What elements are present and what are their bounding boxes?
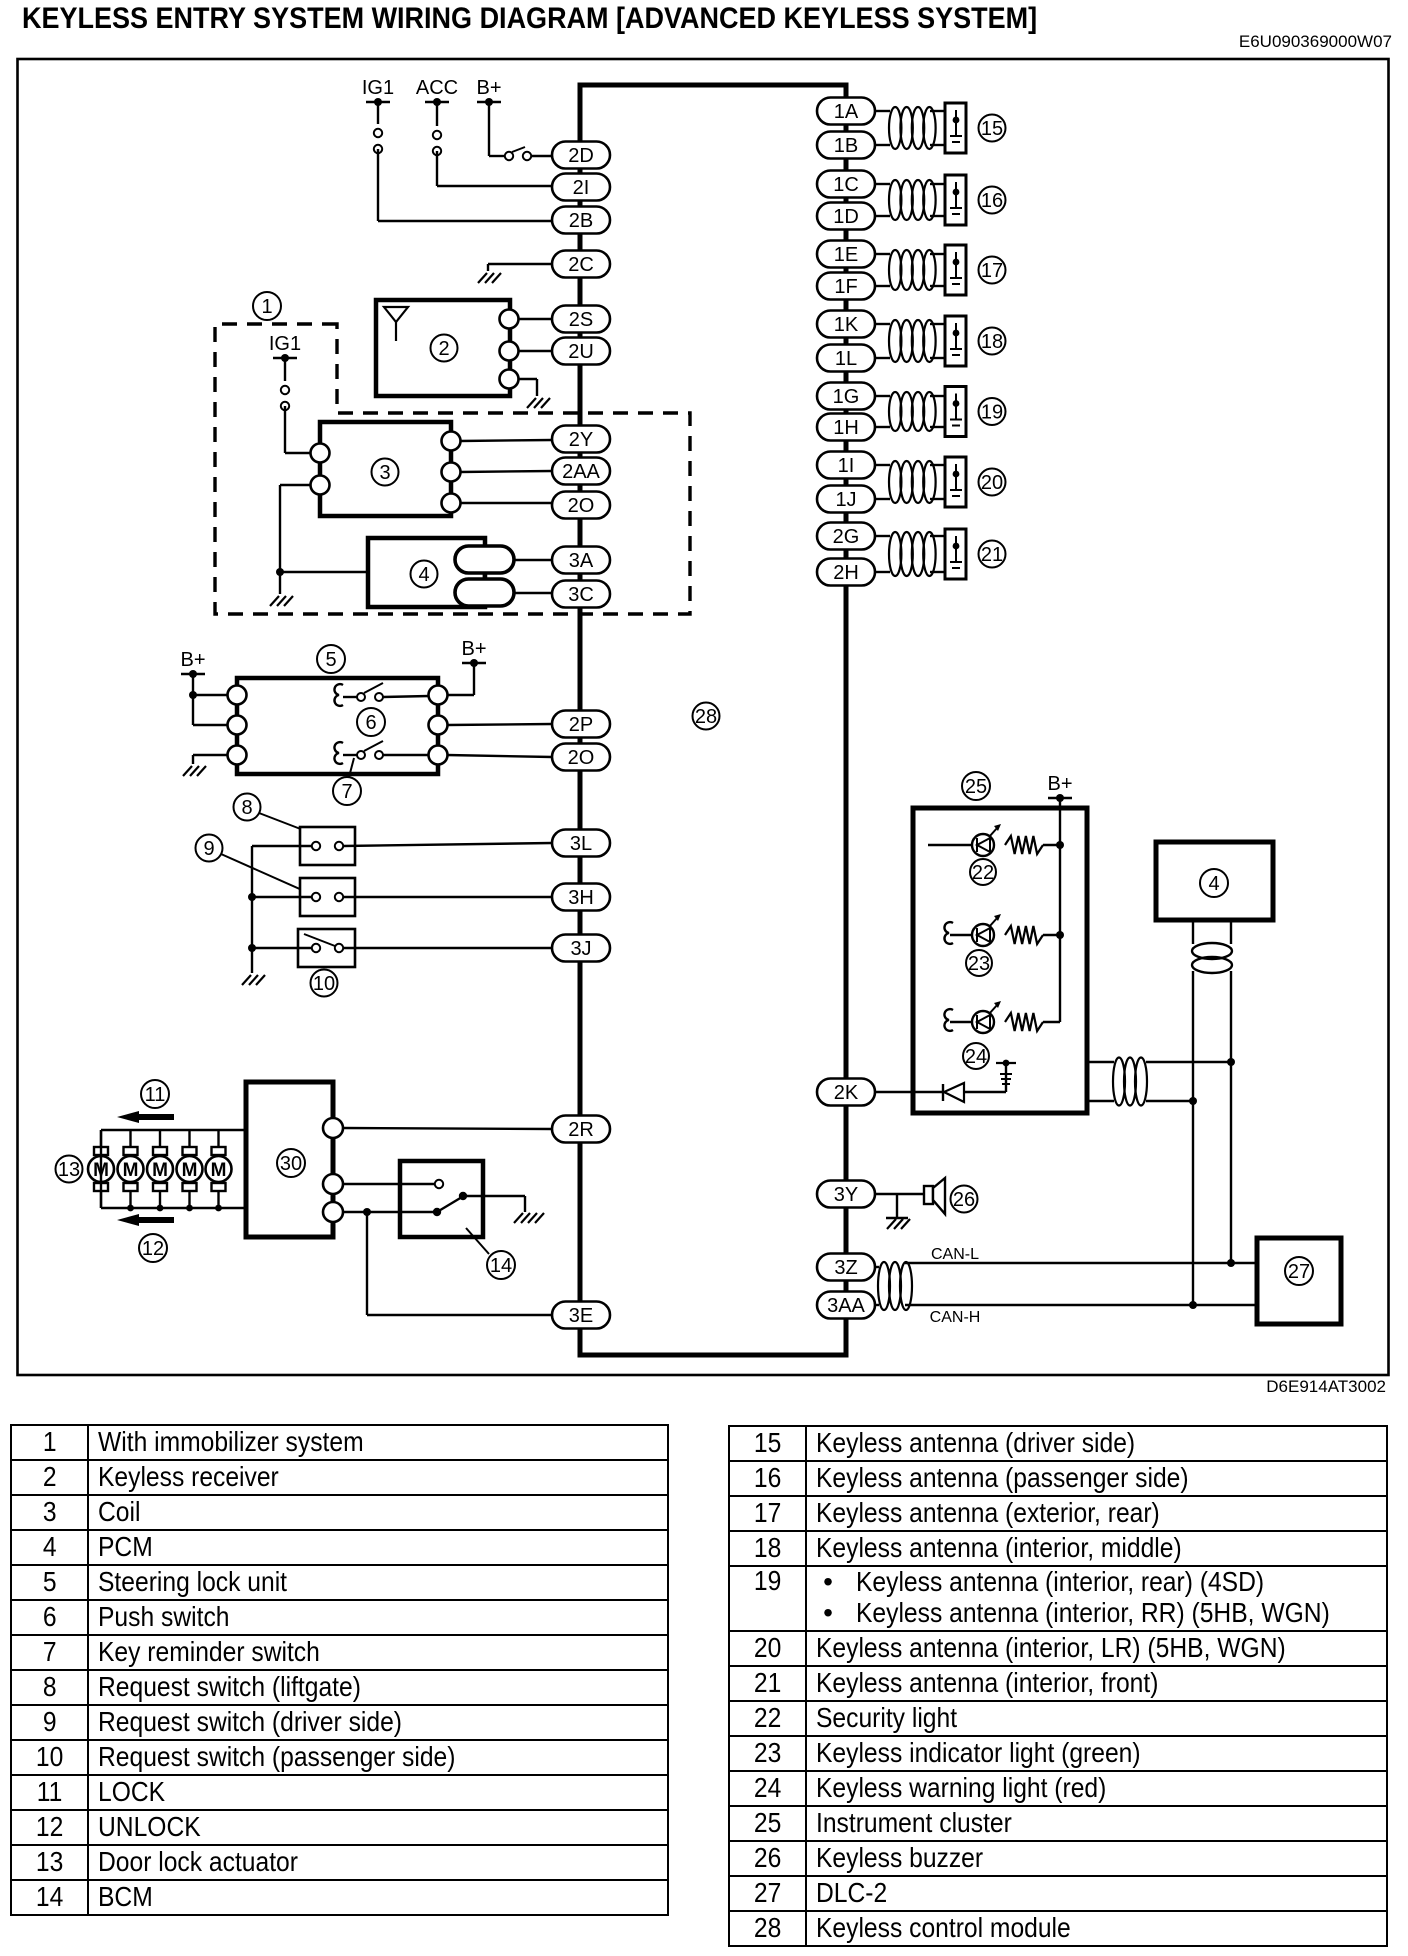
svg-text:2K: 2K (834, 1082, 859, 1104)
svg-text:7: 7 (341, 781, 352, 803)
svg-text:2G: 2G (833, 526, 860, 548)
svg-text:3J: 3J (570, 938, 591, 960)
svg-text:2H: 2H (833, 562, 859, 584)
svg-text:CAN-L: CAN-L (931, 1246, 979, 1263)
svg-text:1B: 1B (834, 135, 858, 157)
svg-text:1A: 1A (834, 101, 859, 123)
svg-text:3C: 3C (568, 584, 594, 606)
svg-text:CAN-H: CAN-H (930, 1309, 981, 1326)
svg-text:1: 1 (261, 296, 272, 318)
svg-text:M: M (152, 1160, 168, 1181)
svg-text:18: 18 (981, 331, 1003, 353)
svg-text:1E: 1E (834, 244, 858, 266)
svg-text:22: 22 (972, 862, 994, 884)
svg-text:6: 6 (365, 712, 376, 734)
svg-text:B+: B+ (461, 638, 486, 660)
svg-text:3H: 3H (568, 887, 594, 909)
svg-text:1L: 1L (835, 348, 857, 370)
svg-text:2S: 2S (569, 309, 593, 331)
svg-text:3A: 3A (569, 550, 594, 572)
svg-text:9: 9 (203, 838, 214, 860)
svg-text:2AA: 2AA (562, 461, 600, 483)
svg-text:2O: 2O (568, 495, 595, 517)
svg-text:B+: B+ (180, 649, 205, 671)
svg-text:1F: 1F (834, 276, 857, 298)
svg-text:ACC: ACC (416, 77, 458, 99)
svg-text:30: 30 (280, 1153, 302, 1175)
svg-text:IG1: IG1 (269, 333, 301, 355)
svg-text:4: 4 (418, 564, 429, 586)
svg-text:3AA: 3AA (827, 1295, 865, 1317)
svg-text:17: 17 (981, 260, 1003, 282)
svg-text:4: 4 (1208, 873, 1219, 895)
svg-text:2I: 2I (573, 177, 590, 199)
svg-text:3E: 3E (569, 1305, 593, 1327)
svg-text:11: 11 (145, 1084, 166, 1106)
svg-text:2B: 2B (569, 210, 593, 232)
svg-text:10: 10 (313, 973, 335, 995)
svg-text:27: 27 (1288, 1261, 1310, 1283)
svg-text:25: 25 (965, 776, 987, 798)
svg-text:21: 21 (981, 544, 1003, 566)
svg-text:M: M (123, 1160, 139, 1181)
svg-text:IG1: IG1 (362, 77, 394, 99)
svg-text:1I: 1I (838, 455, 855, 477)
svg-text:2U: 2U (568, 341, 594, 363)
svg-text:23: 23 (968, 953, 990, 975)
svg-text:14: 14 (490, 1255, 512, 1277)
svg-text:24: 24 (965, 1046, 987, 1068)
svg-text:3: 3 (379, 462, 390, 484)
svg-text:1H: 1H (833, 417, 859, 439)
svg-text:1J: 1J (835, 489, 856, 511)
svg-text:2: 2 (438, 338, 449, 360)
svg-text:8: 8 (241, 797, 252, 819)
svg-text:20: 20 (981, 472, 1003, 494)
svg-text:3L: 3L (570, 833, 592, 855)
svg-text:12: 12 (142, 1238, 164, 1260)
svg-text:2O: 2O (568, 747, 595, 769)
svg-text:2Y: 2Y (569, 429, 593, 451)
svg-text:M: M (211, 1160, 227, 1181)
svg-text:2P: 2P (569, 714, 593, 736)
svg-text:2R: 2R (568, 1119, 594, 1141)
svg-text:15: 15 (981, 118, 1003, 140)
svg-text:3Y: 3Y (834, 1184, 858, 1206)
svg-text:1C: 1C (833, 174, 859, 196)
svg-text:26: 26 (953, 1189, 975, 1211)
svg-text:1G: 1G (833, 386, 860, 408)
svg-text:2D: 2D (568, 145, 594, 167)
svg-text:16: 16 (981, 190, 1003, 212)
svg-text:19: 19 (981, 402, 1003, 424)
svg-text:M: M (182, 1160, 198, 1181)
svg-text:3Z: 3Z (834, 1257, 857, 1279)
svg-text:5: 5 (325, 649, 336, 671)
svg-text:B+: B+ (1047, 773, 1072, 795)
svg-text:1D: 1D (833, 206, 859, 228)
svg-text:13: 13 (58, 1159, 80, 1181)
svg-text:28: 28 (695, 706, 717, 728)
svg-text:B+: B+ (476, 77, 501, 99)
svg-text:2C: 2C (568, 254, 594, 276)
svg-text:1K: 1K (834, 314, 859, 336)
